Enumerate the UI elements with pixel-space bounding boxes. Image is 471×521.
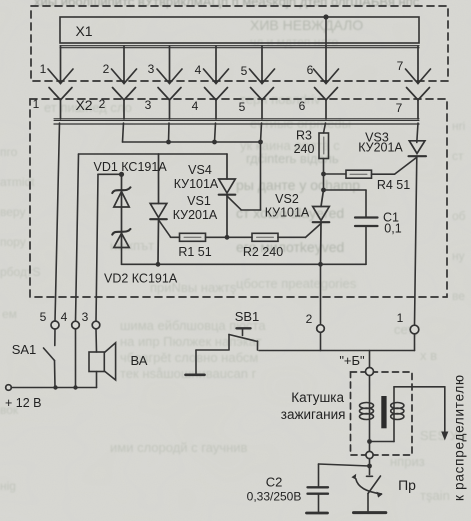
svg-text:х в: х в [420,348,437,363]
svg-text:R4 51: R4 51 [377,178,410,192]
svg-text:Катушка: Катушка [291,390,344,405]
svg-text:ве: ве [452,289,465,303]
svg-text:нприз: нприз [390,454,425,469]
svg-text:КУ201А: КУ201А [173,208,218,222]
svg-text:об: об [452,209,466,223]
svg-text:нig: нig [0,479,16,493]
svg-text:VS1: VS1 [187,194,211,208]
svg-text:"+Б": "+Б" [339,353,365,368]
svg-text:ст: ст [452,149,464,163]
svg-text:зажигания: зажигания [281,407,346,422]
svg-text:VS2: VS2 [275,192,299,206]
svg-text:3: 3 [82,310,89,324]
svg-text:4: 4 [192,99,199,113]
svg-text:ВА: ВА [131,353,148,368]
svg-text:2: 2 [306,312,313,326]
svg-text:SA1: SA1 [12,342,37,357]
svg-text:5: 5 [239,100,246,114]
svg-text:1: 1 [397,311,404,325]
svg-text:5: 5 [40,310,47,324]
svg-text:VD2 КС191А: VD2 КС191А [104,272,178,286]
svg-text:6: 6 [307,63,314,77]
svg-text:нri: нri [452,119,465,133]
svg-text:R2 240: R2 240 [243,245,283,259]
svg-text:7: 7 [397,59,404,73]
svg-text:2: 2 [99,97,106,111]
svg-text:3: 3 [148,62,155,76]
svg-text:1: 1 [40,62,47,76]
svg-text:пго: пго [0,145,18,159]
svg-text:тşain: тşain [420,488,450,503]
svg-text:веру: веру [0,205,25,219]
svg-text:4: 4 [61,310,68,324]
svg-text:С2: С2 [266,475,283,490]
svg-text:1: 1 [33,97,40,111]
svg-text:КУ201А: КУ201А [358,141,403,155]
svg-text:R3: R3 [296,129,312,143]
svg-text:X2: X2 [75,97,92,113]
svg-text:Пр: Пр [398,477,416,493]
svg-text:2: 2 [103,62,110,76]
svg-text:на ипр Пюлжек напэкат: на ипр Пюлжек напэкат [120,334,262,349]
svg-text:0,33/250В: 0,33/250В [247,490,302,504]
svg-text:+ 12 В: + 12 В [5,396,42,410]
svg-text:к распределителю: к распределителю [452,374,467,501]
svg-text:пору: пору [0,235,26,249]
svg-text:7: 7 [396,101,403,115]
svg-text:VD1 КС191А: VD1 КС191А [94,160,168,174]
svg-text:5: 5 [241,64,248,78]
svg-text:VS4: VS4 [188,163,212,177]
svg-text:SB1: SB1 [235,309,260,324]
svg-text:рбодтS: рбодтS [0,265,40,279]
svg-text:240: 240 [294,142,315,156]
svg-text:ну: ну [452,249,465,263]
svg-text:хиы иболшипйтс вУтвриклмАЦп п: хиы иболшипйтс вУтвриклмАЦп п меaskdjh д… [34,0,420,9]
svg-text:3: 3 [145,98,152,112]
svg-text:X1: X1 [75,23,92,39]
svg-text:0,1: 0,1 [384,222,401,236]
svg-text:КУ101А: КУ101А [174,177,219,191]
svg-text:R1 51: R1 51 [178,245,211,259]
svg-text:4: 4 [195,63,202,77]
svg-text:ими слородй с гаучнив: ими слородй с гаучнив [110,440,248,455]
svg-text:6: 6 [299,99,306,113]
svg-text:КУ101А: КУ101А [265,206,310,220]
svg-text:цбосте преategories: цбосте преategories [236,276,357,291]
svg-text:ем: ем [2,307,17,321]
svg-text:ХИВ НЕВЖДАЛО: ХИВ НЕВЖДАЛО [250,17,363,33]
svg-text:нежпът: нежпът [110,238,154,253]
